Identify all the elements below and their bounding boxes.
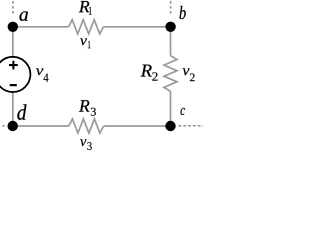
- dashed stub above node a: [12, 1, 14, 15]
- dashed stub left of node d: [2, 125, 4, 127]
- label R1 R: [79, 1, 90, 12]
- plus sign: [9, 61, 18, 70]
- wire top: node a to R1: [13, 26, 69, 28]
- label R1 sub 1: [89, 7, 92, 15]
- minus sign: [10, 84, 17, 86]
- wire left: node a to source top: [12, 27, 14, 57]
- label node b: [180, 6, 186, 19]
- label node d: [17, 104, 26, 120]
- label v2 v: [183, 68, 190, 75]
- node c: [165, 121, 175, 131]
- label v1 v: [80, 38, 87, 45]
- wire top: R1 to node b: [103, 26, 170, 28]
- label R2 sub 2: [152, 72, 157, 80]
- resistor R2: [164, 56, 177, 92]
- label v1 sub 1: [88, 41, 91, 48]
- wire right: node b to R2: [170, 27, 172, 56]
- node b: [165, 22, 175, 32]
- label v4 sub 4: [44, 74, 49, 82]
- wire bottom: R3 to node c: [104, 125, 171, 127]
- dashed stub above node b: [170, 1, 172, 15]
- wire bottom: node d to R3: [13, 125, 69, 127]
- label R3 R: [79, 100, 90, 111]
- label node a: [19, 11, 27, 21]
- label v3 sub 3: [87, 142, 91, 150]
- wire right: R2 to node c: [170, 91, 172, 126]
- label node c: [181, 108, 185, 115]
- label R3 sub 3: [91, 108, 96, 116]
- wire left: source bottom to node d: [12, 92, 14, 126]
- resistor R3: [69, 119, 104, 133]
- label v4 v: [36, 68, 43, 75]
- node a: [8, 22, 18, 32]
- resistor R1: [69, 20, 104, 34]
- label v3 v: [80, 139, 86, 146]
- voltage source V4 circle: [0, 57, 30, 92]
- label v2 sub 2: [190, 73, 195, 81]
- dashed stub right of node c: [178, 125, 203, 127]
- node d: [8, 121, 18, 131]
- label R2 R: [141, 65, 152, 77]
